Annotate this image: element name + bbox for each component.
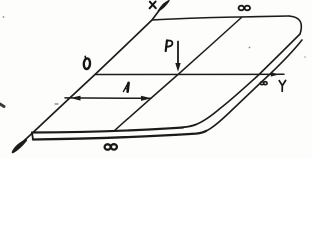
X axis arrowhead bottom xyxy=(13,140,26,152)
left thickness edge xyxy=(32,133,33,140)
label X xyxy=(150,2,156,9)
infinity top xyxy=(239,6,250,11)
speck left edge xyxy=(0,104,4,107)
speck far right xyxy=(304,56,306,58)
X axis arrowhead top xyxy=(158,1,169,11)
speck near A xyxy=(55,103,58,105)
infinity right xyxy=(260,82,267,85)
X axis diagonal (plate left edge) xyxy=(15,4,164,149)
bottom-right rounded corner (top surface) xyxy=(183,125,196,128)
top-right rounded corner xyxy=(289,16,301,34)
interior diagonal through load point xyxy=(114,17,242,131)
Y axis arrowhead xyxy=(271,72,280,76)
speck top left xyxy=(3,16,5,18)
load P arrowhead xyxy=(175,63,180,72)
bottom thickness edge xyxy=(33,131,206,140)
load P arrow shaft xyxy=(177,42,179,65)
horizontal line from origin O to Y arrow xyxy=(95,73,284,75)
infinity bottom xyxy=(105,144,117,150)
plate top edge xyxy=(152,16,289,20)
plate right edge (top surface) xyxy=(196,34,300,125)
label A xyxy=(123,83,128,92)
dimension line A xyxy=(65,97,151,99)
right thickness edge xyxy=(206,40,302,131)
dimension arrowhead right xyxy=(141,96,152,101)
dimension arrowhead left xyxy=(71,96,81,101)
label O xyxy=(83,56,90,69)
label Y xyxy=(279,80,286,91)
label P xyxy=(166,40,173,51)
speck mid right xyxy=(249,47,251,49)
plate bottom edge (top surface) xyxy=(32,128,183,133)
